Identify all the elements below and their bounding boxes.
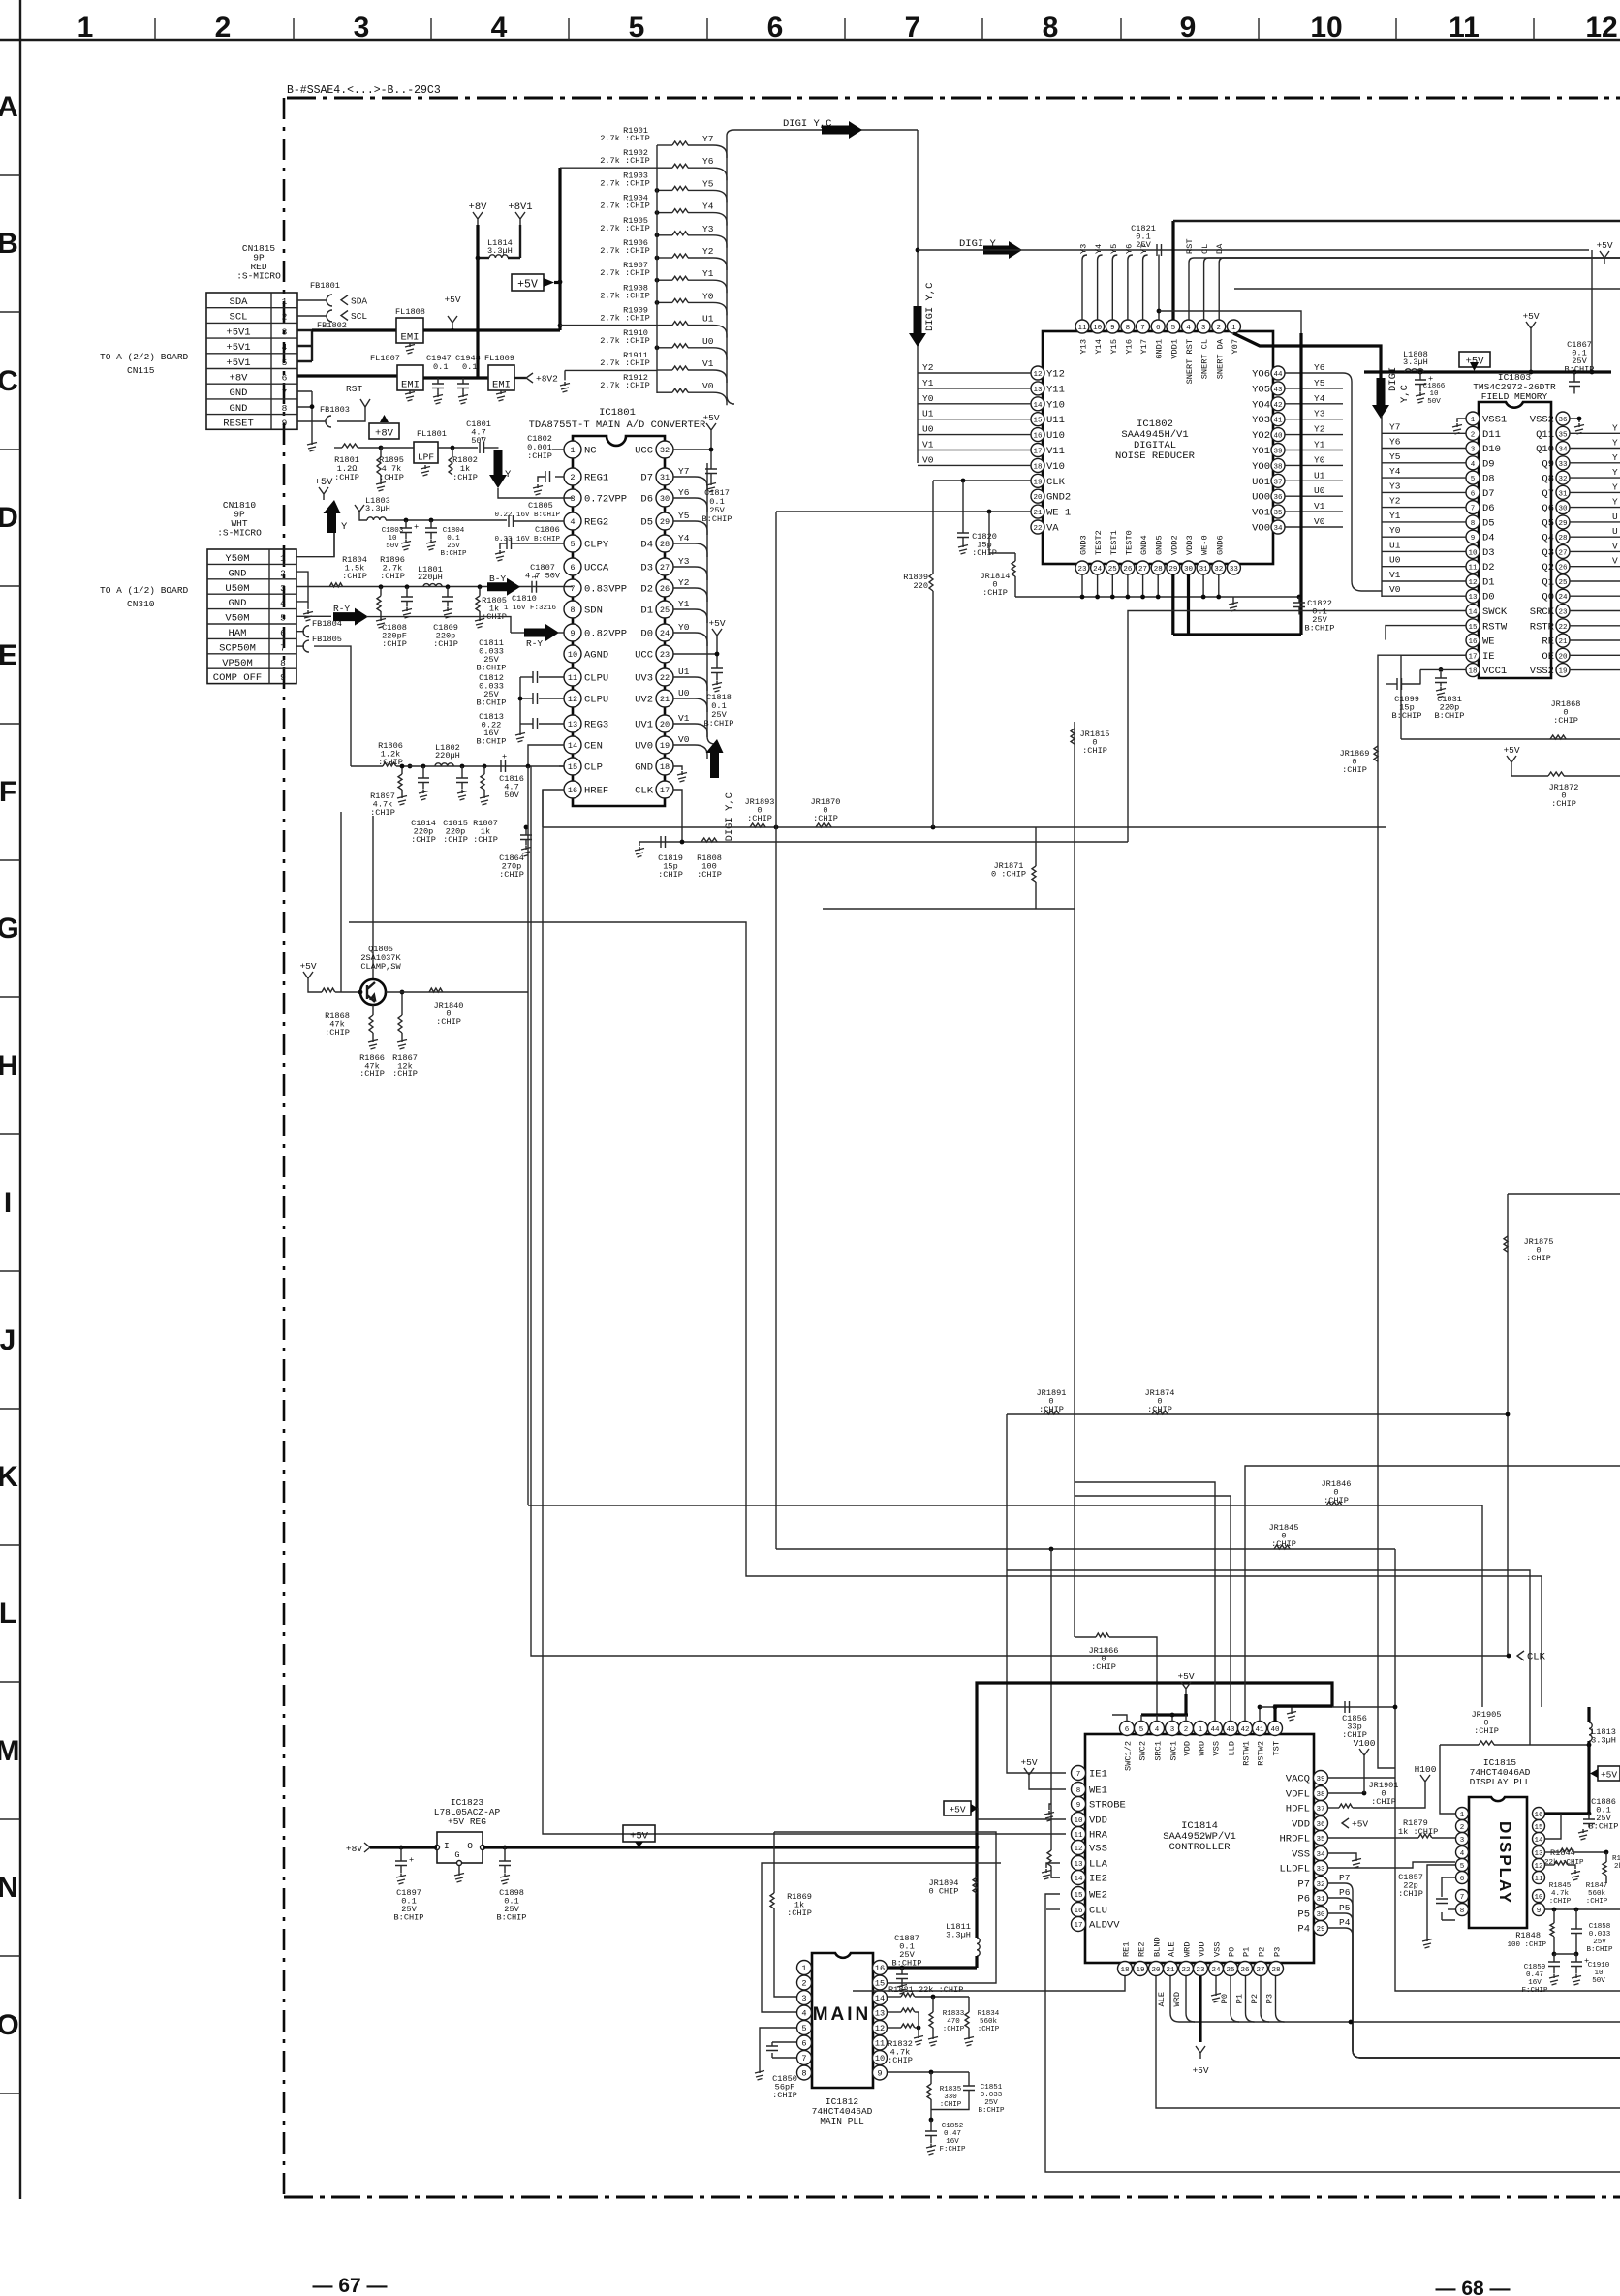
svg-text:P6: P6: [1339, 1887, 1351, 1898]
IC1802 pin 14 Y10: [1031, 397, 1044, 411]
svg-text:43: 43: [1273, 387, 1283, 394]
wire SWCK left: [1128, 611, 1466, 843]
svg-text:12: 12: [1074, 1846, 1082, 1853]
svg-text:26: 26: [1558, 565, 1568, 573]
svg-text:V1: V1: [678, 713, 690, 724]
wire V50M R-Y arrow: [296, 615, 331, 617]
svg-text:22: 22: [1033, 525, 1042, 533]
svg-text:C1910: C1910: [1588, 1962, 1610, 1970]
svg-text:0.1: 0.1: [433, 362, 448, 372]
svg-text:REG1: REG1: [584, 473, 608, 484]
svg-text:Y3: Y3: [1079, 244, 1089, 254]
svg-text:RSTR: RSTR: [1530, 621, 1555, 633]
svg-text:6: 6: [1471, 490, 1476, 498]
svg-text:+5V: +5V: [949, 1805, 965, 1815]
svg-text:V0: V0: [1389, 584, 1401, 595]
svg-text:WE2: WE2: [1089, 1890, 1107, 1902]
svg-text:6: 6: [570, 563, 575, 573]
svg-text::CHIP: :CHIP: [334, 473, 359, 482]
svg-text:U0: U0: [1389, 555, 1401, 566]
svg-text:4: 4: [491, 12, 508, 44]
svg-text:21: 21: [1558, 638, 1568, 646]
IC1815 pin 6: [1456, 1872, 1469, 1884]
svg-text:YO2: YO2: [1252, 430, 1270, 442]
svg-text:19: 19: [1136, 1967, 1144, 1974]
svg-text:13: 13: [1468, 594, 1478, 602]
svg-text:Y0: Y0: [678, 622, 690, 633]
svg-text:Y5: Y5: [702, 178, 714, 189]
svg-text:4.7 50V: 4.7 50V: [525, 572, 561, 581]
svg-text:CLP: CLP: [584, 762, 603, 774]
IC1801 pin 19 UV0: [656, 736, 673, 754]
svg-text:CLK: CLK: [1046, 477, 1066, 488]
IC1812 pin 11: [873, 2035, 888, 2050]
bus Y outputs vertical: [707, 463, 715, 744]
wire Q5 output: [1570, 521, 1620, 523]
wire pin18 RE1: [853, 1976, 1125, 1991]
svg-text:UV1: UV1: [635, 720, 653, 731]
resistor R1835 330: [930, 2072, 932, 2084]
svg-text:13: 13: [1033, 387, 1043, 394]
svg-text:23: 23: [660, 650, 670, 660]
wire CEN pin14: [528, 745, 564, 766]
svg-text:+: +: [533, 573, 538, 582]
svg-text:25V: 25V: [1593, 1939, 1606, 1946]
svg-text:P0: P0: [1220, 1994, 1230, 2003]
svg-text:14: 14: [1033, 402, 1043, 410]
IC1814 pin 30 P5: [1314, 1907, 1328, 1921]
wire CLK long: [531, 766, 1509, 1656]
svg-text:29: 29: [660, 517, 670, 527]
svg-text:8: 8: [1471, 520, 1476, 528]
svg-text:B:CHIP: B:CHIP: [1586, 1946, 1613, 1954]
IC1801 pin 31 D7: [656, 468, 673, 485]
svg-text:VO1: VO1: [1252, 508, 1270, 519]
svg-text::CHIP: :CHIP: [1398, 1889, 1423, 1899]
svg-text:OE: OE: [1542, 651, 1554, 663]
IC1803 pin 10 D3: [1466, 544, 1480, 558]
capacitor C1808 220pF: [405, 584, 410, 589]
svg-text:0 :CHIP: 0 :CHIP: [991, 870, 1026, 880]
svg-text:17: 17: [1033, 449, 1042, 456]
IC1802 pin 44 YO6: [1271, 366, 1285, 380]
svg-text:C1805: C1805: [528, 501, 553, 511]
svg-text:0.47: 0.47: [1526, 1971, 1543, 1979]
svg-text:SCL: SCL: [230, 312, 248, 324]
IC1814 pin 39 VACQ: [1314, 1771, 1328, 1785]
svg-text::CHIP: :CHIP: [411, 835, 436, 845]
wire Y up arrow: [324, 500, 341, 533]
svg-text:Y1: Y1: [678, 599, 690, 609]
wire pin14 IE2: [1051, 1877, 1060, 1878]
svg-text:36: 36: [1316, 1821, 1325, 1829]
wire Q8 output: [1570, 477, 1620, 479]
power +5V pin32: [673, 436, 711, 450]
svg-text:4.7k: 4.7k: [1551, 1890, 1570, 1898]
svg-text:18: 18: [1120, 1967, 1129, 1974]
svg-text:UV2: UV2: [635, 695, 653, 706]
ground pins 7-8: [297, 391, 312, 441]
memory left input labels Y7..V0: [1381, 416, 1383, 597]
svg-text:DISPLAY: DISPLAY: [1496, 1821, 1514, 1905]
wire U1 row to bus: [560, 325, 657, 326]
svg-text::CHIP: :CHIP: [1082, 746, 1107, 756]
wire +5V right edge: [1600, 251, 1609, 264]
svg-text:V0: V0: [702, 381, 714, 391]
svg-text:8: 8: [282, 403, 288, 414]
svg-text:1: 1: [570, 446, 575, 455]
svg-text:Y14: Y14: [1094, 339, 1104, 354]
svg-text:20: 20: [660, 720, 670, 729]
svg-text:29: 29: [1316, 1926, 1324, 1934]
IC1803 pin 24 Q0: [1556, 589, 1570, 603]
wire RSTW stub: [1386, 626, 1466, 640]
svg-text:44: 44: [1210, 1726, 1220, 1734]
svg-text:25V: 25V: [1136, 240, 1151, 250]
svg-text:FB1803: FB1803: [320, 405, 350, 415]
IC1801 pin 1 NC: [564, 441, 581, 458]
svg-text:40: 40: [1273, 433, 1283, 441]
svg-text:+8V: +8V: [375, 428, 394, 440]
svg-text:3: 3: [1471, 447, 1476, 454]
resistor R1807 1k: [483, 764, 487, 769]
svg-text:IE1: IE1: [1089, 1769, 1107, 1781]
svg-text:3.3µH: 3.3µH: [365, 504, 390, 513]
wire CLK row to pin19: [933, 480, 1031, 481]
svg-text:VDD2: VDD2: [1169, 535, 1179, 555]
svg-text:B:CHIP: B:CHIP: [1392, 711, 1422, 721]
svg-text:26: 26: [660, 584, 670, 594]
svg-text:2.7k :CHIP: 2.7k :CHIP: [600, 291, 650, 300]
wires top pins Y13-Y17 up to DIGI Y: [1082, 255, 1087, 320]
svg-text:Y: Y: [1612, 438, 1618, 449]
wire WE-1: [776, 511, 1031, 512]
svg-text:3.3µH: 3.3µH: [1591, 1736, 1616, 1746]
svg-text:5: 5: [801, 2024, 806, 2033]
ground for cap stack: [519, 677, 521, 731]
svg-text:1: 1: [1199, 1726, 1203, 1734]
svg-text:VDD: VDD: [1089, 1815, 1107, 1827]
IC1801 pin 30 D6: [656, 489, 673, 507]
svg-text:25: 25: [1226, 1967, 1235, 1974]
IC1801 pin 9 0.82VPP: [564, 624, 581, 641]
wire pin14 loop: [1544, 1814, 1561, 1839]
svg-text:+8V2: +8V2: [536, 374, 558, 385]
svg-text:26: 26: [1240, 1967, 1250, 1974]
resistor HDFL zig + H100: [1327, 1807, 1339, 1809]
svg-text:44: 44: [1273, 371, 1283, 379]
capacitor C1816 4.7 50V: [501, 760, 506, 772]
IC1803 pin 21 RE: [1556, 634, 1570, 647]
svg-text:V1: V1: [702, 358, 714, 369]
svg-text::CHIP: :CHIP: [772, 2091, 797, 2100]
svg-text:VP50M: VP50M: [222, 658, 253, 669]
IC1814 pin 5: [1135, 1722, 1149, 1736]
svg-text:WE-0: WE-0: [1200, 535, 1210, 555]
wire +5V1 pins 3-5 join: [297, 330, 312, 361]
svg-text:10: 10: [568, 650, 577, 660]
IC1803 pin 25 Q1: [1556, 574, 1570, 588]
svg-text:3: 3: [801, 1994, 806, 2003]
svg-text:7: 7: [570, 584, 575, 594]
svg-text:0.83VPP: 0.83VPP: [584, 584, 627, 596]
svg-text:Y10: Y10: [1046, 399, 1065, 411]
svg-text::CHIP: :CHIP: [1586, 1898, 1608, 1906]
svg-text:D3: D3: [640, 563, 653, 574]
svg-text:+5V: +5V: [1192, 2065, 1208, 2076]
svg-text:20: 20: [1151, 1967, 1161, 1974]
svg-text:D0: D0: [640, 629, 653, 640]
svg-text:0 CHIP: 0 CHIP: [929, 1887, 959, 1897]
svg-text::CHIP: :CHIP: [370, 808, 395, 818]
wire U0: [1285, 495, 1343, 497]
IC1802 pin 43 YO5: [1271, 382, 1285, 395]
svg-text:YO0: YO0: [1252, 461, 1270, 473]
IC1814 pin 1: [1194, 1722, 1208, 1736]
svg-text:50V: 50V: [504, 791, 519, 800]
jumper JR1814: [987, 510, 992, 514]
svg-text:EMI: EMI: [492, 380, 511, 391]
svg-text:D2: D2: [640, 584, 653, 596]
svg-text:IC1801: IC1801: [599, 407, 636, 419]
IC1814 pin 34 VSS: [1314, 1846, 1328, 1861]
svg-text:U50M: U50M: [225, 583, 249, 595]
wire IC1802 bottom bus: [1015, 596, 1299, 598]
wire Y6: [1285, 372, 1343, 374]
wire V0: [1285, 526, 1343, 528]
IC1803 pin 35 Q11: [1556, 426, 1570, 440]
wire Q0 output: [1570, 595, 1620, 597]
wire Q7 output: [1570, 491, 1620, 493]
IC1802 pin 22 VA: [1031, 520, 1044, 534]
svg-text:VSS2: VSS2: [1530, 415, 1554, 426]
svg-text:R1848: R1848: [1515, 1931, 1541, 1940]
svg-text:LPF: LPF: [418, 452, 434, 463]
svg-text:V10: V10: [1046, 461, 1065, 473]
IC1812 pin 12: [873, 2021, 888, 2035]
svg-text:U0: U0: [922, 424, 934, 435]
IC1814 pin 21: [1164, 1962, 1178, 1976]
svg-text:Y6: Y6: [1314, 362, 1325, 373]
svg-text:15: 15: [1534, 1824, 1543, 1832]
svg-text:SWC1: SWC1: [1169, 1741, 1179, 1761]
svg-text:CLAMP,SW: CLAMP,SW: [360, 962, 401, 972]
IC1802 pin 5: [1167, 320, 1180, 333]
svg-text:VSS2: VSS2: [1530, 666, 1554, 677]
IC1802 pin 30: [1181, 561, 1195, 574]
power +8V1: [515, 212, 525, 225]
svg-text:NOISE REDUCER: NOISE REDUCER: [1115, 450, 1196, 462]
svg-text:Y3: Y3: [1314, 409, 1325, 419]
svg-text:SDA: SDA: [351, 295, 367, 306]
wire CLP pin15 to below: [559, 765, 564, 767]
svg-text:CL: CL: [1200, 244, 1210, 254]
svg-text:G: G: [454, 1850, 459, 1860]
IC1803 pin 8 D5: [1466, 515, 1480, 529]
wire VDD heavy bottom: [1173, 333, 1301, 635]
svg-text:16: 16: [1468, 638, 1478, 646]
svg-text:27: 27: [1138, 566, 1147, 574]
svg-text:9: 9: [877, 2069, 882, 2079]
IC1814 pin 4: [1150, 1722, 1165, 1736]
wire CLK row: [639, 841, 1128, 843]
svg-text:SWC2: SWC2: [1138, 1741, 1148, 1761]
svg-text:10: 10: [1093, 325, 1103, 332]
IC1814 pin 13 LLA: [1072, 1856, 1086, 1871]
svg-text:7: 7: [1140, 325, 1145, 332]
svg-text:Q0: Q0: [1542, 592, 1554, 604]
svg-text:SNERT CL: SNERT CL: [1200, 339, 1210, 379]
svg-text:Y6: Y6: [1389, 437, 1401, 448]
capacitor C1817: [710, 450, 712, 469]
resistor R1866 47k: [372, 1005, 374, 1015]
wire pin4 left loop: [762, 1863, 1001, 2012]
svg-text:GND5: GND5: [1155, 535, 1165, 555]
IC1802 pin 37 UO1: [1271, 474, 1285, 487]
IC1815 pin 16: [1533, 1808, 1545, 1820]
svg-text:D6: D6: [1482, 503, 1495, 514]
wire pin20 BLND down: [1156, 1976, 1620, 2108]
svg-text:D4: D4: [1482, 533, 1495, 544]
svg-text:34: 34: [1273, 525, 1283, 533]
svg-text:0.22 16V B:CHIP: 0.22 16V B:CHIP: [494, 512, 560, 519]
svg-text:11: 11: [568, 673, 577, 683]
svg-text:HDFL: HDFL: [1286, 1804, 1310, 1815]
svg-text:I: I: [444, 1841, 450, 1851]
svg-text:21: 21: [1033, 510, 1043, 517]
IC1803 pin 15 RSTW: [1466, 619, 1480, 633]
svg-text::CHIP: :CHIP: [359, 1070, 385, 1079]
IC1802 pin 18 V10: [1031, 458, 1044, 472]
svg-text:28: 28: [1271, 1967, 1280, 1974]
node SCL: [341, 311, 348, 321]
svg-text:SNERT RST: SNERT RST: [1185, 339, 1195, 384]
svg-text:+: +: [502, 752, 507, 761]
svg-text:Y,C: Y,C: [1399, 385, 1411, 403]
svg-text:Y1: Y1: [702, 268, 714, 279]
svg-text:2: 2: [1217, 325, 1222, 332]
svg-text:D1: D1: [640, 605, 653, 617]
wire GND1 stub: [1158, 255, 1160, 321]
svg-text:REG3: REG3: [584, 720, 608, 731]
svg-text:TST: TST: [1272, 1741, 1282, 1755]
wire pin6 stub: [1112, 1715, 1127, 1722]
IC1815 pin 8: [1456, 1904, 1469, 1916]
svg-text:C: C: [0, 365, 18, 397]
svg-text:FB1805: FB1805: [312, 635, 342, 644]
svg-text:31: 31: [660, 473, 670, 482]
resistor R1805 1k: [478, 584, 483, 589]
svg-text:C1804: C1804: [443, 527, 465, 535]
svg-text:6: 6: [1460, 1876, 1465, 1883]
svg-text:29: 29: [1558, 520, 1567, 528]
svg-text:A: A: [0, 91, 18, 123]
IC1814 pin 42: [1238, 1722, 1253, 1736]
IC1814 pin 3: [1166, 1722, 1180, 1736]
svg-text:2: 2: [801, 1979, 806, 1989]
IC1802 pin 33: [1227, 561, 1240, 574]
svg-text:C1866: C1866: [1423, 383, 1446, 390]
svg-text:— 67 —: — 67 —: [312, 2275, 387, 2296]
svg-text:GND1: GND1: [1155, 339, 1165, 359]
svg-text:ALE: ALE: [1157, 1992, 1167, 2006]
svg-text:B:CHIP: B:CHIP: [477, 698, 507, 708]
svg-text::CHIP: :CHIP: [658, 870, 683, 880]
svg-text:UO0: UO0: [1252, 492, 1270, 504]
svg-text:23: 23: [1196, 1967, 1205, 1974]
svg-text:35: 35: [1273, 510, 1283, 517]
svg-text:CLU: CLU: [1089, 1906, 1107, 1917]
power flag +5V right: [1598, 1766, 1620, 1781]
IC1812 pin 8: [797, 2065, 812, 2080]
IC1803 pin 12 D1: [1466, 574, 1480, 588]
svg-text:7: 7: [801, 2054, 806, 2063]
svg-text:WE: WE: [1482, 636, 1495, 648]
svg-text:3: 3: [354, 12, 370, 44]
svg-text:50V: 50V: [1427, 398, 1441, 406]
wire Y2: [1285, 434, 1343, 436]
svg-text:0.033: 0.033: [1589, 1931, 1611, 1939]
svg-text:+: +: [414, 522, 419, 532]
svg-text::CHIP: :CHIP: [1091, 1662, 1116, 1672]
svg-text:1: 1: [282, 296, 288, 307]
power flag +5V boxed: [512, 274, 544, 291]
capacitor C1898: [483, 1846, 978, 1848]
ground G pin: [458, 1866, 460, 1872]
resistor R1897 4.7k: [401, 766, 403, 774]
IC1802 pin 25: [1106, 561, 1119, 574]
svg-text:12: 12: [1468, 579, 1477, 587]
svg-text:YO5: YO5: [1252, 384, 1270, 395]
wire y1621: [1007, 1570, 1530, 1745]
svg-text:CLPU: CLPU: [584, 695, 608, 706]
svg-text::CHIP: :CHIP: [443, 835, 468, 845]
svg-text:+8V1: +8V1: [508, 202, 532, 213]
svg-text:42: 42: [1273, 402, 1282, 410]
svg-text:10: 10: [1594, 1970, 1604, 1977]
svg-text:CLPY: CLPY: [584, 540, 609, 551]
power +5V antenna: [1526, 322, 1536, 334]
IC1814 pin 36 VDD: [1314, 1816, 1328, 1831]
svg-text:Y: Y: [1612, 467, 1618, 478]
svg-text:+5V: +5V: [1020, 1757, 1037, 1768]
wire pin9 row: [888, 2071, 969, 2073]
svg-text:2k: 2k: [1614, 1863, 1620, 1871]
svg-text:2: 2: [1184, 1726, 1189, 1734]
svg-text:9: 9: [1537, 1908, 1542, 1915]
IC1814 pin 17 ALDVV: [1072, 1917, 1086, 1932]
svg-text:15: 15: [875, 1979, 885, 1989]
svg-text:32: 32: [660, 446, 670, 455]
svg-text:Q7: Q7: [1542, 488, 1554, 500]
svg-text:39: 39: [1316, 1776, 1324, 1784]
IC1801 pin 15 CLP: [564, 758, 581, 775]
svg-text:V: V: [1612, 556, 1618, 567]
IC1801 pin 22 UV3: [656, 668, 673, 686]
IC1814 pin 28: [1269, 1962, 1284, 1976]
svg-text:H100: H100: [1415, 1764, 1437, 1775]
svg-text:29: 29: [1168, 566, 1177, 574]
svg-text:2.7k :CHIP: 2.7k :CHIP: [600, 224, 650, 233]
IC1814 pin 7 IE1: [1072, 1766, 1086, 1781]
svg-text:P4: P4: [1297, 1924, 1310, 1936]
node V100: [1359, 1749, 1369, 1761]
svg-text:41: 41: [1255, 1726, 1264, 1734]
svg-text:7: 7: [1471, 506, 1476, 513]
svg-text:FB1801: FB1801: [310, 281, 340, 291]
svg-text:Y0: Y0: [922, 393, 934, 404]
svg-text:Q3: Q3: [1542, 547, 1554, 559]
